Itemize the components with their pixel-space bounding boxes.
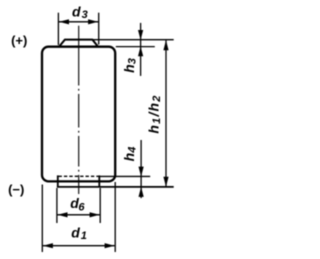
h3 label (rotated) [121, 58, 139, 73]
svg-text:1: 1 [81, 230, 87, 242]
d6 extension lines [56, 188, 58, 223]
d1 dimension line [43, 245, 115, 247]
svg-text:h3: h3 [121, 58, 139, 73]
negative contact cup: hidden edge (dashed) [59, 175, 100, 177]
h4 label (rotated) [121, 147, 139, 162]
cup bottom + extension to right [57, 186, 174, 188]
h4 upper extension line [100, 175, 150, 177]
svg-text:d: d [71, 224, 80, 240]
svg-text:d: d [72, 3, 81, 19]
d3 extension lines [57, 13, 59, 45]
d3 dimension line [59, 21, 98, 23]
svg-text:6: 6 [78, 202, 85, 214]
d6 dimension line [57, 214, 99, 216]
svg-text:h1/h2: h1/h2 [145, 94, 163, 133]
svg-text:h4: h4 [121, 147, 139, 162]
d1 extension lines [41, 185, 43, 253]
positive terminal cap [59, 40, 98, 47]
h3 dimension [140, 23, 142, 76]
svg-text:(+): (+) [11, 33, 27, 48]
svg-text:3: 3 [82, 9, 88, 21]
battery can body outline [42, 47, 115, 182]
cap-top extension line (h3 / h1 upper reference) [92, 39, 173, 41]
h4 dimension [140, 140, 142, 198]
cup right wall [98, 175, 100, 187]
h1/h2 label (rotated) [145, 94, 163, 133]
svg-text:(−): (−) [8, 182, 24, 197]
body-top extension line (h3 lower reference) [116, 46, 155, 48]
cup left wall [57, 175, 59, 187]
h1/h2 dimension line [165, 40, 167, 187]
center line [78, 26, 80, 194]
